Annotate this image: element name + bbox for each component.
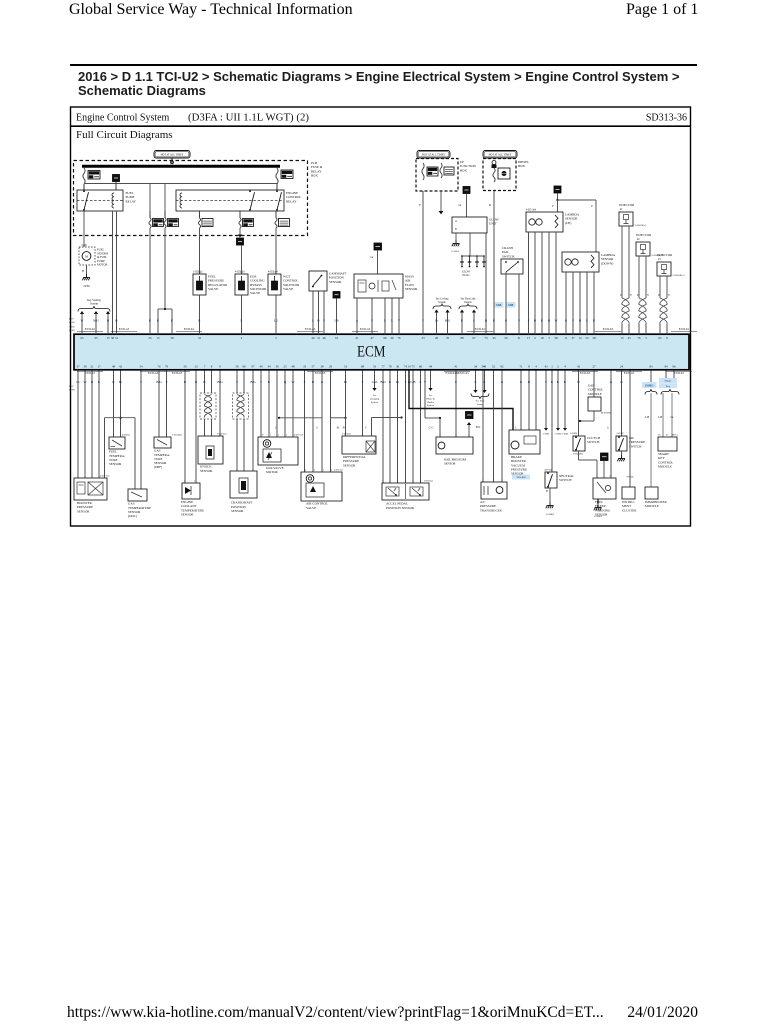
svg-text:L: L [420,380,422,384]
svg-text:4-D5-3a4: 4-D5-3a4 [526,209,537,212]
svg-text:4-D5-3a1: 4-D5-3a1 [100,475,110,478]
svg-text:G: G [321,380,324,384]
svg-text:G: G [607,426,609,429]
svg-text:48: 48 [112,365,116,369]
svg-text:Br: Br [396,380,400,384]
svg-text:L: L [515,426,517,429]
svg-text:G: G [520,380,523,384]
svg-text:E/UD-K1: E/UD-K1 [184,328,195,331]
svg-text:2-D15(a): 2-D15(a) [424,480,433,483]
svg-text:B/G: B/G [156,380,162,384]
svg-text:46: 46 [322,336,326,340]
svg-text:(DOWN): (DOWN) [601,261,613,265]
svg-text:33: 33 [421,336,425,340]
svg-text:83: 83 [649,365,653,369]
svg-text:88: 88 [460,336,464,340]
svg-text:L-B: L-B [645,416,650,419]
svg-text:Gr: Gr [76,380,80,384]
svg-text:66: 66 [419,365,423,369]
svg-text:B/G: B/G [250,380,256,384]
svg-text:L: L [586,319,588,323]
svg-text:R: R [112,380,115,384]
svg-text:System: System [90,303,99,306]
svg-text:33: 33 [303,365,307,369]
svg-text:4: 4 [420,480,422,483]
svg-text:Gr: Gr [458,203,461,207]
svg-text:36: 36 [396,365,400,369]
svg-text:76: 76 [637,336,641,340]
svg-text:14: 14 [407,365,411,369]
svg-text:(6-W): (6-W) [69,321,75,324]
svg-text:G-SD02: G-SD02 [546,513,555,516]
svg-text:L: L [473,319,475,323]
svg-text:HOT AT ALL TIMES: HOT AT ALL TIMES [422,153,445,156]
svg-text:L: L [391,319,393,323]
svg-text:66: 66 [383,336,387,340]
svg-text:(D3FA : UII 1.1L WGT) (2): (D3FA : UII 1.1L WGT) (2) [188,111,309,123]
svg-text:E/UD-K3: E/UD-K3 [603,328,614,331]
svg-text:B/G: B/G [217,380,223,384]
svg-text:F: F [362,380,364,384]
svg-text:E/UD-K1: E/UD-K1 [85,372,96,375]
svg-text:F: F [419,203,421,207]
svg-text:41: 41 [454,365,458,369]
svg-text:26: 26 [658,433,661,436]
svg-text:B: B [485,319,487,323]
svg-text:MODULE: MODULE [645,504,659,508]
svg-text:30: 30 [275,365,279,369]
svg-text:1: 1 [468,434,470,437]
svg-text:B: B [184,380,186,384]
svg-text:76: 76 [397,336,401,340]
svg-text:R: R [551,380,554,384]
svg-text:52: 52 [585,336,589,340]
svg-text:48: 48 [291,365,295,369]
svg-text:24: 24 [620,365,624,369]
svg-text:2: 2 [184,480,186,483]
svg-text:L: L [241,319,243,323]
svg-text:P: P [236,380,238,384]
svg-text:53: 53 [373,365,377,369]
svg-text:B.O: B.O [380,380,386,384]
svg-text:Smart: Smart [665,380,672,383]
svg-text:SENSOR: SENSOR [444,461,456,465]
svg-text:45: 45 [492,336,496,340]
svg-text:3: 3 [439,434,441,437]
svg-text:96: 96 [242,365,246,369]
svg-text:VALVE: VALVE [283,287,293,291]
svg-text:R: R [593,319,596,323]
svg-text:57: 57 [311,365,315,369]
svg-text:15: 15 [106,336,110,340]
svg-text:45: 45 [627,336,631,340]
svg-text:B: B [455,228,457,231]
svg-text:SENSOR: SENSOR [231,509,244,513]
svg-text:Lamps: Lamps [477,403,484,406]
svg-text:L: L [312,319,314,323]
svg-text:2-D10(K)-1: 2-D10(K)-1 [635,224,648,227]
svg-text:P: P [572,319,574,323]
svg-text:BOX: BOX [311,173,319,177]
svg-text:Gr: Gr [435,319,439,323]
svg-text:A: A [455,220,457,223]
svg-text:#3: #3 [658,258,661,261]
svg-text:M-D3-D60: M-D3-D60 [601,413,612,415]
svg-text:G-D06: G-D06 [562,434,569,436]
svg-text:(DOC): (DOC) [128,514,137,518]
svg-text:E: E [455,380,457,384]
svg-text:37: 37 [76,365,80,369]
svg-text:21: 21 [666,433,669,436]
svg-text:43: 43 [544,365,548,369]
svg-text:E/UD-K1: E/UD-K1 [85,328,96,331]
svg-text:1: 1 [270,433,272,436]
svg-text:P: P [591,204,593,208]
svg-text:4-D5-3a6: 4-D5-3a6 [294,433,304,436]
svg-text:F: F [552,204,554,208]
svg-text:POSITION SENSOR: POSITION SENSOR [386,506,415,510]
svg-text:E/UD-A3: E/UD-A3 [305,328,316,331]
svg-text:G: G [610,380,613,384]
svg-text:2: 2 [331,468,333,471]
svg-text:79: 79 [165,365,169,369]
svg-text:PLUG: PLUG [462,274,469,277]
svg-text:Y: Y [630,294,632,297]
svg-text:25: 25 [283,365,287,369]
svg-text:SENSOR: SENSOR [77,509,90,513]
svg-text:Br: Br [337,426,340,429]
svg-text:VIN-002: VIN-002 [516,476,526,479]
svg-text:W: W [554,319,557,323]
svg-text:Br: Br [344,380,348,384]
svg-text:17: 17 [527,336,531,340]
svg-text:W: W [80,319,83,323]
svg-text:L-B: L-B [410,380,415,384]
svg-text:E/UD-K1: E/UD-K1 [475,328,486,331]
svg-text:INJECTOR: INJECTOR [657,253,673,257]
svg-text:SSB: SSB [496,303,501,307]
svg-text:77: 77 [381,365,385,369]
svg-text:System: System [371,401,378,404]
svg-text:HOT AT ALL TIMES: HOT AT ALL TIMES [489,153,512,156]
svg-text:4-D-D4: 4-D-D4 [544,469,552,472]
svg-text:SWITCH: SWITCH [559,478,572,482]
svg-text:E/UD-K1: E/UD-K1 [674,372,685,375]
svg-text:12: 12 [578,336,582,340]
svg-text:34: 34 [267,365,271,369]
svg-text:76: 76 [446,336,450,340]
svg-text:G: G [316,426,318,429]
svg-text:RELAY: RELAY [126,199,137,203]
svg-text:Q: Q [284,380,287,384]
svg-text:2-D15(a): 2-D15(a) [342,432,351,435]
svg-text:1-D5-3a5: 1-D5-3a5 [217,433,227,436]
svg-text:52: 52 [492,365,496,369]
svg-text:Key: Key [666,385,671,388]
svg-text:Y: Y [668,294,670,297]
svg-text:23: 23 [194,365,198,369]
svg-text:E: E [475,380,477,384]
svg-text:MOTOR: MOTOR [97,263,107,267]
svg-text:W: W [291,380,294,384]
svg-text:R: R [493,319,496,323]
svg-text:67: 67 [472,336,476,340]
svg-text:B: B [91,380,93,384]
svg-text:VALVE: VALVE [250,291,260,295]
svg-text:B: B [312,380,314,384]
svg-text:1-D5(a)2: 1-D5(a)2 [193,270,203,273]
svg-text:ECM: ECM [357,343,386,360]
svg-text:Br: Br [119,380,123,384]
svg-text:MODULE: MODULE [658,464,672,468]
svg-text:1: 1 [596,474,598,477]
svg-text:P: P [140,380,142,384]
svg-text:65: 65 [80,336,84,340]
svg-text:M: M [85,254,88,258]
svg-text:16: 16 [335,336,339,340]
svg-text:MODULE: MODULE [588,392,602,396]
svg-text:49: 49 [259,365,263,369]
svg-text:3: 3 [501,478,503,481]
svg-text:27: 27 [592,365,596,369]
svg-text:G: G [620,380,623,384]
svg-text:39: 39 [83,365,87,369]
svg-text:(DPF): (DPF) [154,465,162,469]
svg-text:P: P [371,319,373,323]
svg-text:R: R [98,380,101,384]
svg-text:58: 58 [111,336,115,340]
svg-text:#1: #1 [620,208,623,211]
svg-text:SD313-36: SD313-36 [646,112,687,123]
svg-text:20: 20 [311,336,315,340]
svg-text:SENSOR: SENSOR [343,463,356,467]
svg-text:2: 2 [493,478,495,481]
svg-text:E/UD-A3: E/UD-A3 [119,328,130,331]
svg-text:53: 53 [344,365,348,369]
svg-text:(6-W): (6-W) [69,388,75,391]
svg-text:SSB: SSB [508,303,513,307]
svg-text:Key Starting: Key Starting [87,299,101,302]
svg-text:E/UD-A3: E/UD-A3 [148,372,159,375]
svg-text:31: 31 [517,336,521,340]
svg-text:96: 96 [672,365,676,369]
svg-text:6: 6 [262,433,264,436]
svg-text:A-D06: A-D06 [543,433,550,436]
svg-text:R: R [461,319,464,323]
svg-text:R: R [564,380,567,384]
svg-text:L: L [384,319,386,323]
svg-text:4: 4 [305,468,307,471]
svg-text:6: 6 [382,480,384,483]
svg-text:E/UD-K3: E/UD-K3 [580,372,591,375]
svg-text:LG: LG [274,319,279,323]
svg-text:R: R [489,203,491,207]
svg-text:VALVE: VALVE [208,287,218,291]
svg-text:50: 50 [504,336,508,340]
svg-text:E/UD-A3: E/UD-A3 [624,372,635,375]
svg-text:78: 78 [388,365,392,369]
svg-text:3: 3 [412,480,414,483]
svg-text:E/UD-A3: E/UD-A3 [172,372,183,375]
svg-text:B: B [107,319,109,323]
svg-text:68: 68 [361,365,365,369]
svg-text:Y: Y [424,380,427,384]
svg-text:B.O: B.O [476,426,481,429]
svg-text:44: 44 [429,365,433,369]
svg-text:42: 42 [577,365,581,369]
svg-text:2: 2 [278,433,280,436]
svg-text:GF06: GF06 [83,285,90,288]
svg-text:1-D-D2: 1-D-D2 [616,433,624,435]
svg-text:F: F [422,319,424,323]
svg-text:1: 1 [389,480,391,483]
svg-text:MS-A: MS-A [672,433,678,436]
svg-text:3: 3 [286,433,288,436]
svg-text:BOX: BOX [460,168,468,172]
svg-text:11: 11 [565,336,568,340]
svg-text:Gr: Gr [671,416,674,419]
svg-text:MOTOR: MOTOR [266,470,279,474]
svg-text:E/UD-K1&E/UD-A3: E/UD-K1&E/UD-A3 [446,372,470,375]
svg-text:G: G [501,380,504,384]
svg-text:1-D15(K): 1-D15(K) [172,434,182,437]
svg-text:1: 1 [482,478,484,481]
svg-text:P: P [166,380,168,384]
svg-text:18: 18 [540,336,544,340]
svg-text:F: F [260,380,262,384]
svg-text:42: 42 [119,365,123,369]
svg-text:15: 15 [620,336,624,340]
svg-text:F: F [304,380,306,384]
svg-text:B: B [548,319,550,323]
svg-text:5-D-D6: 5-D-D6 [570,433,578,435]
svg-text:System: System [427,404,434,407]
svg-text:CLUSTER: CLUSTER [622,508,637,512]
svg-text:47: 47 [370,336,374,340]
svg-text:Y: Y [398,319,401,323]
svg-text:2: 2 [397,480,399,483]
svg-text:4-D5(a)4: 4-D5(a)4 [268,270,278,273]
svg-text:54: 54 [139,365,143,369]
svg-text:E/UD-A3: E/UD-A3 [360,328,371,331]
svg-text:G-SD02: G-SD02 [594,515,603,518]
svg-text:Y: Y [647,294,649,297]
svg-text:RELAY: RELAY [286,199,297,203]
svg-text:GLOW: GLOW [462,271,471,274]
svg-text:F: F [365,426,367,429]
svg-text:B: B [115,319,117,323]
svg-text:Engine Control System: Engine Control System [76,112,170,123]
svg-text:Full Circuit Diagrams: Full Circuit Diagrams [76,129,173,141]
svg-text:SWITCH: SWITCH [587,440,600,444]
svg-text:TRANSDUCER: TRANSDUCER [480,508,503,512]
svg-text:UNIT: UNIT [489,222,497,226]
svg-text:26: 26 [435,336,439,340]
svg-text:28: 28 [592,336,596,340]
svg-text:4-D5(a)3: 4-D5(a)3 [235,270,245,273]
svg-text:82: 82 [500,365,504,369]
svg-text:P: P [518,319,520,323]
svg-text:L: L [484,380,486,384]
svg-text:B: B [317,319,319,323]
svg-text:B-G: B-G [445,319,451,323]
svg-text:B: B [546,490,548,493]
svg-text:GrO: GrO [372,380,378,384]
svg-text:LB: LB [334,319,338,323]
svg-text:20: 20 [390,336,394,340]
svg-text:INJECTOR: INJECTOR [619,203,635,207]
svg-text:O: O [195,380,198,384]
svg-text:R: R [268,380,271,384]
svg-text:15: 15 [156,336,160,340]
svg-text:P: P [323,319,325,323]
svg-text:2: 2 [455,434,457,437]
svg-text:31: 31 [115,336,119,340]
svg-text:73: 73 [484,336,488,340]
svg-text:W: W [577,380,580,384]
svg-text:38: 38 [320,365,324,369]
svg-text:75: 75 [411,365,415,369]
svg-text:G-G: G-G [429,426,434,429]
svg-text:R: R [171,319,174,323]
svg-text:E/UD-A3: E/UD-A3 [315,372,326,375]
svg-text:3: 3 [314,468,316,471]
svg-text:SENSOR: SENSOR [200,469,213,473]
svg-text:INJECTOR: INJECTOR [636,233,652,237]
svg-text:B-: B- [343,426,346,429]
svg-text:VALVE: VALVE [306,506,316,510]
svg-text:SWITCH: SWITCH [502,254,515,258]
svg-text:HOT AT ALL TIMES: HOT AT ALL TIMES [161,153,184,156]
svg-text:4-D5(a): 4-D5(a) [122,434,130,437]
svg-text:SENSOR: SENSOR [405,287,418,291]
svg-text:21: 21 [355,336,359,340]
svg-text:31: 31 [317,336,321,340]
svg-text:76: 76 [157,365,161,369]
svg-text:17: 17 [97,365,101,369]
svg-text:52: 52 [198,336,202,340]
svg-text:4-D5-3a7: 4-D5-3a7 [334,468,344,471]
svg-text:IMMO: IMMO [645,385,653,388]
svg-text:Gr: Gr [370,255,373,259]
svg-text:71: 71 [519,365,523,369]
svg-text:SENSOR: SENSOR [329,280,342,284]
svg-text:2-D10(K)-3: 2-D10(K)-3 [673,274,686,277]
svg-text:W: W [83,380,86,384]
svg-text:#2: #2 [637,238,640,241]
svg-text:R: R [198,319,201,323]
svg-text:R: R [389,380,392,384]
svg-text:P: P [545,380,547,384]
svg-text:37: 37 [571,336,575,340]
svg-text:94: 94 [664,365,668,369]
svg-text:B: B [534,319,536,323]
svg-text:G: G [565,319,568,323]
svg-text:R: R [149,319,152,323]
svg-text:(UP): (UP) [565,221,571,225]
svg-text:21: 21 [90,365,94,369]
svg-text:97: 97 [251,365,255,369]
svg-text:25: 25 [148,336,152,340]
svg-text:28: 28 [554,336,558,340]
svg-text:E/UD-K1: E/UD-K1 [679,328,690,331]
svg-text:5: 5 [405,480,407,483]
svg-text:B/G: B/G [93,319,99,323]
svg-text:R: R [541,319,544,323]
svg-text:BOX: BOX [518,164,526,168]
svg-text:25: 25 [94,336,98,340]
svg-text:SWITCH: SWITCH [629,444,642,448]
